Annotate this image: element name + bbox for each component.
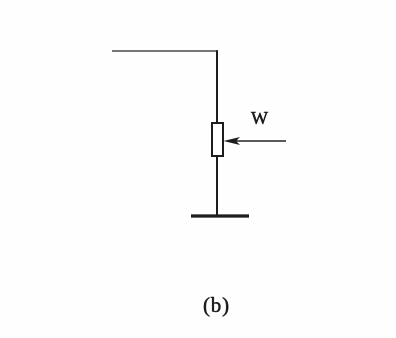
- potentiometer body (resistor rectangle): [212, 123, 223, 156]
- wire: vertical from potentiometer bottom to ground: [216, 156, 218, 216]
- ground (single bar): [191, 214, 249, 217]
- wire: top horizontal from left end to corner: [112, 50, 218, 52]
- wiper arrow (points left into potentiometer): [224, 137, 287, 145]
- svg-text:W: W: [251, 108, 268, 128]
- wire: vertical from corner down to potentiometer top: [216, 50, 218, 123]
- svg-text:(b): (b): [203, 293, 230, 317]
